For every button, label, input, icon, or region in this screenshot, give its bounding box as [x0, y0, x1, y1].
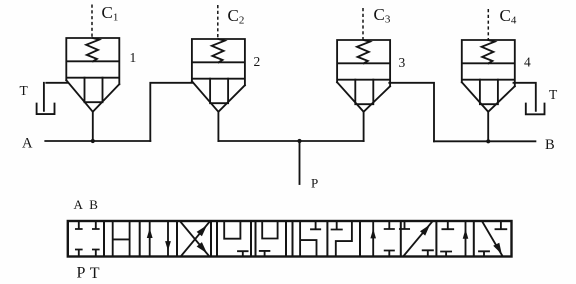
svg-text:1: 1 — [130, 50, 137, 65]
node B-valve4 junction — [486, 139, 490, 143]
svg-text:4: 4 — [524, 55, 531, 70]
valve 2 side port wire to A line — [150, 83, 193, 141]
pilot line C2 (dashed) — [217, 5, 219, 39]
cell 12 blocked ports — [479, 221, 506, 257]
cell 8 blocked port — [332, 221, 342, 230]
svg-text:C3: C3 — [374, 5, 391, 26]
svg-text:P: P — [77, 265, 86, 282]
svg-text:T: T — [549, 87, 558, 102]
svg-text:A: A — [22, 136, 33, 152]
cell 9 flow line up — [372, 221, 374, 257]
valve 4 T-port wire — [514, 83, 536, 111]
svg-text:B: B — [545, 137, 555, 153]
valve 3 spring — [357, 40, 370, 63]
valve 4 poppet cone — [462, 82, 515, 112]
cell 3 down arrowhead — [165, 241, 171, 251]
valve 3 poppet stem lines — [355, 80, 373, 105]
left tank symbol — [37, 104, 55, 115]
valve 4 bottom port wire — [487, 112, 489, 142]
wire P drop — [299, 141, 301, 184]
cell 1 blocked ports (all closed) — [76, 221, 99, 257]
cell 9 blocked ports — [385, 221, 394, 257]
wire B line — [434, 140, 535, 142]
valve 2 bottom port wire — [217, 112, 219, 141]
valve 4 poppet stem lines — [480, 80, 498, 105]
cell 5 blocked port — [238, 251, 248, 256]
svg-text:T: T — [20, 83, 29, 98]
valve 1 poppet stem lines — [85, 78, 103, 103]
pilot line C4 (dashed) — [487, 9, 489, 40]
cell 7 blocked port — [311, 221, 320, 229]
valve 1 body box — [66, 38, 119, 84]
cell 10 diagonal flow line — [403, 222, 432, 256]
svg-text:P: P — [311, 176, 318, 191]
cell 10 arrowhead — [420, 225, 430, 236]
wire P manifold line — [218, 140, 363, 142]
valve 1 bottom port wire — [92, 112, 94, 141]
pilot line C3 (dashed) — [362, 8, 364, 40]
cell 4 arrowhead down-right — [197, 242, 207, 253]
cell 5 bridge path — [224, 221, 240, 239]
valve 3 side port wire to B line — [389, 83, 434, 142]
valve 1 spring — [86, 38, 99, 61]
svg-text:2: 2 — [254, 54, 261, 69]
cell 7 branch path — [300, 221, 316, 257]
cell 8 jog path — [336, 221, 352, 257]
cell 12 diagonal flow line — [482, 222, 502, 256]
cell 4 arrowhead up-right — [197, 225, 207, 236]
node A-valve1 junction — [91, 139, 95, 143]
cell 4 crossed flow lines — [181, 222, 209, 256]
cell 2 H-path symbol — [113, 221, 130, 257]
valve 4 body box — [462, 40, 515, 86]
right tank symbol — [526, 104, 545, 115]
valve 4 spring — [482, 40, 495, 63]
valve 3 poppet cone — [337, 82, 390, 112]
wire A line — [45, 140, 150, 142]
cell 11 up arrowhead — [463, 229, 469, 239]
pilot line C1 (dashed) — [91, 5, 93, 39]
cell 3 flow line down — [167, 221, 169, 257]
svg-text:T: T — [90, 265, 100, 282]
valve 1 T-port wire — [44, 83, 68, 111]
valve 1 poppet cone — [66, 80, 119, 112]
svg-text:C2: C2 — [228, 6, 245, 27]
svg-text:C4: C4 — [500, 6, 517, 27]
valve 3 bottom port wire — [363, 112, 365, 141]
cell 6 bridge path — [262, 221, 277, 239]
valve 2 spring — [212, 39, 225, 62]
cell 3 flow line up — [149, 221, 151, 257]
valve 2 poppet stem lines — [210, 79, 228, 104]
valve 2 poppet cone — [192, 81, 245, 112]
cell 11 blocked ports — [441, 221, 453, 257]
cell 10 blocked port bottom — [423, 250, 433, 256]
cell 3 up arrowhead — [147, 228, 153, 238]
svg-text:3: 3 — [399, 55, 406, 70]
svg-text:A: A — [74, 197, 84, 212]
cell 6 blocked port — [260, 251, 270, 257]
valve 2 body box — [192, 39, 245, 85]
cell 9 up arrowhead — [370, 229, 376, 239]
cell 10 blocked port top — [400, 221, 409, 229]
position divider lines — [104, 221, 474, 257]
directional valve block outline — [68, 221, 512, 257]
valve 3 body box — [337, 40, 390, 86]
svg-text:C1: C1 — [102, 3, 119, 24]
cell 12 arrowhead — [493, 243, 502, 255]
cell 11 flow line up — [465, 221, 467, 257]
node P junction — [297, 139, 301, 143]
svg-text:B: B — [89, 197, 98, 212]
